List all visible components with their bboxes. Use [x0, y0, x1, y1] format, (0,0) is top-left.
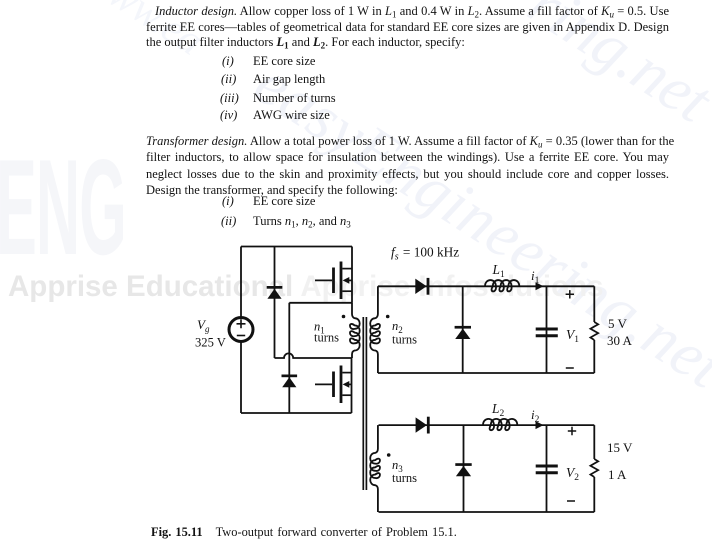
diode D2 (clamp lower) [282, 375, 298, 388]
wire: cap branch 2 [546, 425, 548, 512]
svg-text:i1: i1 [531, 268, 540, 286]
MOSFET Q1 [315, 262, 352, 300]
resistor R2 load [590, 459, 598, 477]
plus 1 [566, 290, 574, 298]
current arrow i2 [536, 421, 544, 429]
wire: Q2 drain rail [351, 358, 353, 413]
wire: secondary 2 top [379, 424, 595, 426]
wire: top rail primary [241, 246, 352, 248]
minus 1 [566, 367, 574, 369]
svg-text:i2: i2 [531, 407, 540, 425]
current arrow i1 [536, 282, 544, 290]
diode D6 freewheel output 2 [455, 463, 471, 476]
wire: inner horizontal to primary top [289, 302, 352, 304]
caption [151, 525, 457, 540]
svg-text:turns: turns [392, 333, 417, 347]
svg-text:fs = 100 kHz: fs = 100 kHz [391, 245, 459, 263]
wire: D1 branch [274, 247, 276, 359]
diode D3 series output 1 [415, 278, 429, 295]
svg-text:1 A: 1 A [608, 467, 627, 482]
transformer secondary winding n2 [370, 286, 380, 373]
watermark Apprise Educational [8, 270, 604, 304]
wire: Q1 drain rail [351, 247, 353, 303]
plus 2 [568, 427, 576, 435]
svg-text:15 V: 15 V [607, 440, 633, 455]
source Vg [229, 318, 253, 342]
wire: freewheel branch 1 [462, 286, 464, 373]
transformer dot n3 [387, 453, 391, 457]
list 2 [222, 194, 234, 210]
transformer dot primary [342, 315, 346, 319]
wire: secondary 1 bottom [378, 372, 594, 374]
minus 2 [567, 500, 575, 502]
list 1 [222, 54, 234, 70]
svg-text:L1: L1 [492, 262, 505, 280]
wire: left rail lower [240, 342, 242, 414]
svg-text:turns: turns [314, 331, 339, 345]
svg-text:V1: V1 [566, 327, 579, 345]
wire: secondary 1 top [378, 285, 594, 287]
watermark ENG left [0, 126, 126, 289]
wire: load rail 2 [593, 425, 595, 512]
svg-text:L2: L2 [491, 401, 504, 419]
diode D1 (clamp upper) [267, 286, 283, 299]
paragraph 2 [146, 134, 669, 150]
wire: freewheel branch 2 [463, 425, 465, 512]
transformer secondary winding n3 [370, 425, 380, 512]
transformer primary winding n1 [350, 303, 360, 358]
wire: bottom rail primary [241, 412, 352, 414]
MOSFET Q2 [315, 366, 352, 404]
wire: inner vertical D2 branch [288, 303, 290, 413]
resistor R1 load [590, 322, 598, 340]
svg-text:V2: V2 [566, 465, 579, 483]
paragraph 1 [146, 4, 669, 20]
wire: cap branch 1 [546, 286, 548, 373]
wire: secondary 2 bottom [379, 511, 595, 513]
watermark corner script [76, 0, 212, 66]
inductor L1 [485, 280, 519, 291]
wire: left rail upper [240, 247, 242, 318]
svg-text:325 V: 325 V [195, 336, 226, 350]
wire: clamp horizontal with hop over vertical [275, 353, 353, 358]
capacitor C1 [536, 329, 558, 336]
transformer core [363, 317, 366, 490]
diode D4 freewheel output 1 [455, 326, 471, 339]
svg-text:Vg: Vg [197, 317, 210, 334]
watermark diagonal script easyEngineering.net [242, 46, 712, 404]
transformer dot n2 [386, 315, 390, 319]
inductor L2 [483, 419, 517, 430]
capacitor C2 [536, 466, 558, 473]
diode D5 series output 2 [416, 417, 430, 434]
wire: load rail 1 [593, 286, 595, 373]
svg-text:turns: turns [392, 471, 417, 485]
svg-text:5 V: 5 V [608, 316, 628, 331]
svg-text:30 A: 30 A [607, 333, 633, 348]
